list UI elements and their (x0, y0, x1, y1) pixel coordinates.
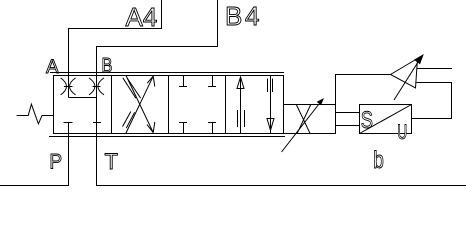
svg-text:U: U (397, 121, 407, 144)
flow control valve box (284, 105, 336, 134)
wire transducer left links (336, 113, 360, 126)
svg-text:B4: B4 (225, 1, 259, 31)
wire from flow control box up to amplifier (336, 75, 391, 105)
position 3 blocked port top-right (208, 76, 216, 87)
wire divider box3/box4 (225, 76, 227, 134)
throttle B (restrictor, position 1) (89, 78, 104, 95)
amplifier adjustment arrow (394, 54, 424, 100)
node T port crossing bar (93, 122, 101, 124)
svg-text:A4: A4 (126, 2, 158, 32)
valve top rail (50, 72, 284, 74)
position 3 blocked port bottom-left (179, 123, 187, 134)
svg-text:T: T (105, 149, 118, 174)
position 2 crossed arrow ascending (126, 76, 155, 133)
svg-text:S: S (361, 107, 373, 134)
wire divider box2/box3 (168, 76, 170, 134)
wire A4 line from top to port A column (69, 0, 162, 98)
svg-text:B: B (102, 55, 113, 77)
valve body envelope (4 position boxes) (54, 76, 284, 134)
wire amplifier lower output to transducer (412, 83, 452, 119)
svg-text:b: b (373, 147, 384, 174)
position 4 down arrow (267, 76, 274, 134)
position transducer box (360, 105, 412, 134)
flow control adjustment arrow (282, 98, 325, 152)
svg-text:A: A (46, 57, 59, 78)
wire P port line down and left (0, 123, 69, 186)
wire amplifier upper output (417, 68, 452, 70)
position 2 transition marks upper (123, 78, 141, 98)
wire B4 line from top through valve down to tank line (97, 0, 466, 186)
amplifier triangle (391, 59, 418, 89)
position 4 down arrow marks (268, 79, 273, 93)
position 4 up arrow (237, 77, 244, 134)
node P blocked port bar (64, 122, 73, 124)
position 2 transition marks lower (123, 112, 135, 129)
position transducer diagonal (360, 105, 412, 134)
wire bridge between throttles (69, 97, 97, 99)
position 3 blocked port bottom-right (208, 123, 216, 134)
throttle A (restrictor, position 1) (61, 78, 76, 95)
valve bottom rail (49, 136, 285, 138)
wire divider box1/box2 (111, 76, 113, 134)
position 3 blocked port top-left (179, 76, 187, 87)
position 2 crossed arrow descending (126, 76, 155, 133)
svg-text:P: P (49, 150, 62, 173)
spring (left valve end) (17, 104, 54, 124)
position 4 up arrow marks (238, 110, 245, 127)
flow control throttle cross (296, 105, 311, 134)
